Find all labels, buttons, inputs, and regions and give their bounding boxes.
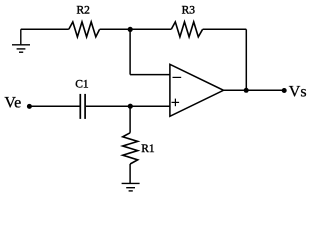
wire (feedback vertical to output node) <box>245 29 247 90</box>
resistor R1 <box>123 133 138 164</box>
ground (below R1, GND2) <box>122 183 140 191</box>
svg-text:C1: C1 <box>75 78 89 90</box>
wire (R2 to node A) <box>100 28 131 30</box>
svg-text:Ve: Ve <box>4 94 21 111</box>
svg-text:R1: R1 <box>141 143 155 155</box>
capacitor C1 <box>80 94 85 119</box>
node C (output/feedback junction) <box>244 88 249 93</box>
svg-text:R3: R3 <box>182 5 196 17</box>
wire (op-amp output to Vs) <box>224 89 284 91</box>
node B (junction C1/R1/non-inverting input) <box>128 104 133 109</box>
pin + (non-inverting input marker) <box>172 99 180 107</box>
wire (R1 to GND2) <box>129 164 131 183</box>
wire (GND1 to R2) <box>21 28 69 30</box>
op-amp U1 <box>170 64 224 116</box>
node Ve (input terminal dot) <box>27 104 32 109</box>
wire (to op-amp inverting input) <box>130 74 170 76</box>
svg-text:R2: R2 <box>77 5 91 17</box>
wire (node A to R3) <box>130 28 171 30</box>
node A (junction R2/R3/inverting input) <box>128 27 133 32</box>
wire (Ve to C1) <box>29 105 80 107</box>
ground (top-left, GND1) <box>12 29 30 52</box>
svg-text:Vs: Vs <box>289 83 307 100</box>
pin - (inverting input marker) <box>173 76 182 78</box>
resistor R3 <box>171 22 202 37</box>
wire (C1 to node B) <box>86 105 130 107</box>
node Vs (output terminal dot) <box>282 88 287 93</box>
wire (node A down to inverting input) <box>129 29 131 74</box>
resistor R2 <box>69 22 100 37</box>
wire (R3 to feedback corner) <box>203 28 247 30</box>
wire (node B down to R1) <box>129 106 131 133</box>
wire (node B to op-amp non-inverting input) <box>130 105 170 107</box>
